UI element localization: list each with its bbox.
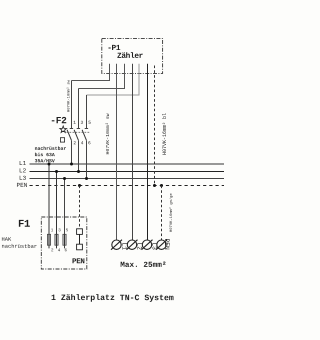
svg-text:F1: F1 [18,219,30,231]
terminal L2 circle [127,240,138,250]
meter P1 dashed box [102,38,163,73]
svg-text:nachrüstbar: nachrüstbar [1,244,37,250]
wire meter terminal 5 to breaker F2 pole 3 [87,64,140,95]
svg-text:6: 6 [88,140,91,146]
breaker F2 pole 2 blade [74,130,78,140]
svg-text:L3: L3 [19,175,27,182]
svg-text:-P1: -P1 [107,45,121,53]
annotation HAK nachrüstbar [1,237,37,250]
wire PEN dashed down to terminal PEN [161,186,163,241]
svg-text:H07VK-16mm² gn/ge: H07VK-16mm² gn/ge [169,193,174,232]
svg-text:L2: L2 [135,242,142,250]
breaker F2 coupling bar [67,131,91,133]
svg-text:5: 5 [88,120,91,126]
fuse F1 pole 3 link [64,234,66,245]
svg-text:PEN: PEN [16,182,27,189]
wire meter terminal 2 down to terminal L1 [116,64,118,240]
wire L1 to fuse F1 pole 1 [48,164,50,248]
breaker F2 pole 2 contact tick [77,128,80,130]
breaker F2 star actuator [60,126,67,132]
junction PEN to F1 [78,184,81,187]
svg-text:PEN: PEN [163,239,170,251]
junction F2-L2 [77,170,80,173]
F1 PEN terminal link [79,234,81,244]
wire L3 to fuse F1 pole 3 [64,179,66,249]
terminal PEN circle [156,240,167,250]
wire F2 pole 3 upper pin [86,95,88,128]
F1 PEN terminal lower square [77,244,83,250]
bus L3 [30,178,225,180]
terminal L3 circle [142,240,153,250]
junction F2-L1 [70,163,73,166]
junction L2-fuse2 [55,170,58,173]
svg-text:Max. 25mm²: Max. 25mm² [120,261,166,270]
junction L3-fuse3 [63,177,66,180]
svg-text:-F2: -F2 [50,115,67,126]
wire meter terminal 1 to breaker F2 pole 1 [72,64,110,81]
svg-text:2: 2 [73,140,76,146]
bus L2 [30,171,225,173]
svg-text:PEN: PEN [72,258,85,266]
svg-text:1: 1 [73,120,76,126]
fuse F1 pole 1 body [47,234,50,245]
junction F2-L3 [85,177,88,180]
svg-text:H07VK-10mm² sw: H07VK-10mm² sw [105,113,111,154]
svg-text:L1: L1 [120,242,127,250]
wire F2 pole 1 lower pin to L1 [71,140,73,164]
fuse F1 pole 2 body [55,234,58,245]
wire meter N terminal dashed down to PEN bus [154,66,156,186]
bus L1 [30,163,225,165]
svg-text:Zähler: Zähler [117,53,144,61]
wire L2 to fuse F1 pole 2 [56,172,58,249]
wire F2 pole 1 upper pin [71,81,73,129]
junction L1-fuse1 [48,163,51,166]
wire meter terminal 3 to breaker F2 pole 2 [79,64,125,89]
svg-text:bis 63A: bis 63A [35,152,55,158]
wire meter terminal 4 down to terminal L2 [132,64,134,240]
svg-text:L2: L2 [19,167,27,174]
bus PEN dashed [30,185,225,187]
svg-text:nachrüstbar: nachrüstbar [35,146,67,152]
svg-text:HAK: HAK [1,237,11,243]
junction PEN to terminal PEN [160,184,163,187]
terminal L1 circle [111,240,122,250]
wire F2 pole 2 lower pin to L2 [78,140,80,171]
F1 dashed box [41,217,87,269]
svg-text:4: 4 [81,140,84,146]
breaker F2 pole 1 blade [67,130,71,140]
svg-text:35A/HSV: 35A/HSV [35,158,55,164]
breaker F2 pole 3 contact tick [85,128,88,130]
breaker F2 release box [60,138,64,142]
wire PEN dashed down to F1 PEN terminal [79,186,81,229]
svg-text:3: 3 [80,120,83,126]
junction PEN to meter N [153,184,156,187]
annotation nachrüstbar bis 63A [35,146,67,164]
F1 PEN terminal upper square [77,229,83,235]
wire F2 pole 2 upper pin [78,89,80,129]
fuse F1 pole 3 body [63,234,66,245]
fuse F1 pole 2 link [56,234,58,245]
breaker F2 pole 3 blade [82,130,86,140]
svg-text:H07VK-16mm² bl: H07VK-16mm² bl [162,113,168,155]
svg-text:H07VK-10mm² sw: H07VK-10mm² sw [68,79,72,112]
wire meter terminal 6 down to terminal L3 [147,64,149,240]
fuse F1 pole 1 link [48,234,50,245]
wire F2 pole 3 lower pin to L3 [86,140,88,178]
svg-text:1 Zählerplatz TN-C System: 1 Zählerplatz TN-C System [51,293,174,303]
svg-text:L1: L1 [19,160,27,167]
breaker F2 pole 1 contact tick [70,128,73,130]
